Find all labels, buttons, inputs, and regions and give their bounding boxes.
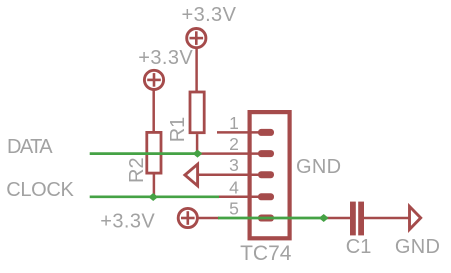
wire: R2 bottom to CLOCK junction [153, 173, 156, 197]
pin 2 pad [258, 150, 274, 157]
wire: supply to R1 top [195, 48, 198, 91]
capacitor C1 (bypass) plate left [350, 202, 356, 236]
svg-text:DATA: DATA [7, 136, 53, 158]
wire: supply to R2 top [152, 90, 155, 132]
wire: C1 right plate to GND [363, 217, 409, 220]
pin 3 pad [258, 171, 274, 178]
IC U1 TC74 body [250, 112, 290, 238]
ground symbol at C1 (triangle pointing right) [410, 206, 421, 229]
supply symbol +3.3V (middle, feeds R2) [144, 70, 163, 89]
svg-text:1: 1 [229, 113, 239, 133]
ground symbol at pin 3 (triangle pointing left) [185, 164, 198, 186]
svg-text:5: 5 [229, 199, 239, 219]
pin 1 wire (NC) [217, 131, 260, 134]
svg-text:GND: GND [296, 156, 341, 178]
pin 5 wire (VDD red stub from supply) [198, 217, 219, 220]
svg-text:3: 3 [229, 155, 239, 175]
junction on VDD at C1 [319, 214, 329, 222]
net wire DATA (green) [90, 152, 200, 155]
net wire CLOCK (green) [90, 195, 219, 198]
svg-text:R1: R1 [167, 117, 189, 143]
svg-text:R2: R2 [126, 157, 148, 183]
pin 3 wire (GND) [198, 173, 260, 176]
pin 2 wire (SDA, red stub) [199, 152, 260, 155]
junction on DATA at R1 [193, 150, 203, 158]
pin 5 pad [258, 215, 274, 222]
wire: R1 bottom to DATA junction [196, 134, 199, 154]
wire: C1 junction to C1 left plate [324, 217, 351, 220]
capacitor C1 plate right [358, 202, 364, 236]
junction on CLOCK at R2 [148, 193, 158, 201]
supply symbol +3.3V (feeds VDD pin 5) [178, 208, 197, 227]
svg-text:GND: GND [395, 236, 440, 258]
net wire VDD to bypass cap (green, crosses IC body) [218, 217, 324, 220]
resistor R1 (pull-up on DATA) [190, 92, 204, 133]
pin 4 pad [258, 193, 274, 200]
svg-text:TC74: TC74 [240, 242, 292, 265]
pin 4 wire (SCLK, red stub) [218, 196, 261, 199]
resistor R2 (pull-up on CLOCK) [147, 132, 161, 173]
svg-text:+3.3V: +3.3V [100, 210, 155, 232]
svg-text:+3.3V: +3.3V [182, 4, 237, 26]
svg-text:CLOCK: CLOCK [6, 179, 74, 201]
svg-text:C1: C1 [346, 236, 372, 258]
pin 1 pad [258, 129, 274, 136]
svg-text:+3.3V: +3.3V [138, 47, 193, 69]
svg-text:2: 2 [229, 134, 239, 154]
supply symbol +3.3V (top, feeds R1) [187, 28, 206, 47]
svg-text:4: 4 [229, 177, 239, 197]
